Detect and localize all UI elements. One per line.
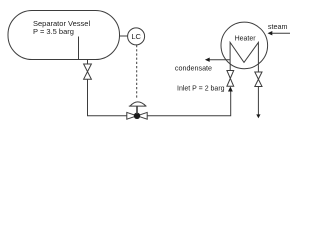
svg-text:LC: LC (131, 32, 141, 41)
level controller U-LC circle (128, 28, 145, 45)
steam supply line (272, 32, 290, 34)
valve V3 heater outlet hourglass (255, 72, 262, 87)
wire V1 down and right to control valve (88, 79, 127, 116)
svg-text:Heater: Heater (235, 36, 257, 43)
steam flow arrow left (268, 31, 273, 35)
control valve LV body bowtie (127, 112, 147, 119)
wire vessel to LC (120, 35, 128, 37)
valve V1 vessel bottom hourglass (84, 64, 92, 79)
condensate flow arrow left (205, 58, 210, 62)
signal dashed line LC to control valve (136, 45, 138, 99)
svg-text:steam: steam (268, 22, 288, 31)
vessel outlet nozzle stub (87, 60, 89, 64)
flow arrow up inlet (228, 87, 233, 92)
coil M tube bundle (230, 42, 258, 66)
internal dip line (78, 37, 80, 60)
heater circle (221, 22, 268, 69)
control valve actuator diaphragm dome (129, 102, 147, 106)
flow arrow down outlet (256, 114, 260, 118)
control valve actuator stem (136, 106, 138, 114)
svg-text:Inlet P = 2 barg: Inlet P = 2 barg (177, 85, 225, 92)
wire V2 to heater coil (229, 64, 231, 71)
svg-text:condensate: condensate (175, 64, 212, 73)
valve V2 heater inlet hourglass (227, 71, 234, 87)
wire control valve to heater inlet riser (147, 91, 231, 116)
svg-text:P = 3.5 barg: P = 3.5 barg (33, 27, 74, 36)
wire outlet down (257, 87, 259, 115)
condensate line (209, 59, 230, 61)
separator vessel (8, 11, 120, 60)
wire V3 top stub (257, 66, 259, 72)
control valve ball center (134, 113, 140, 119)
